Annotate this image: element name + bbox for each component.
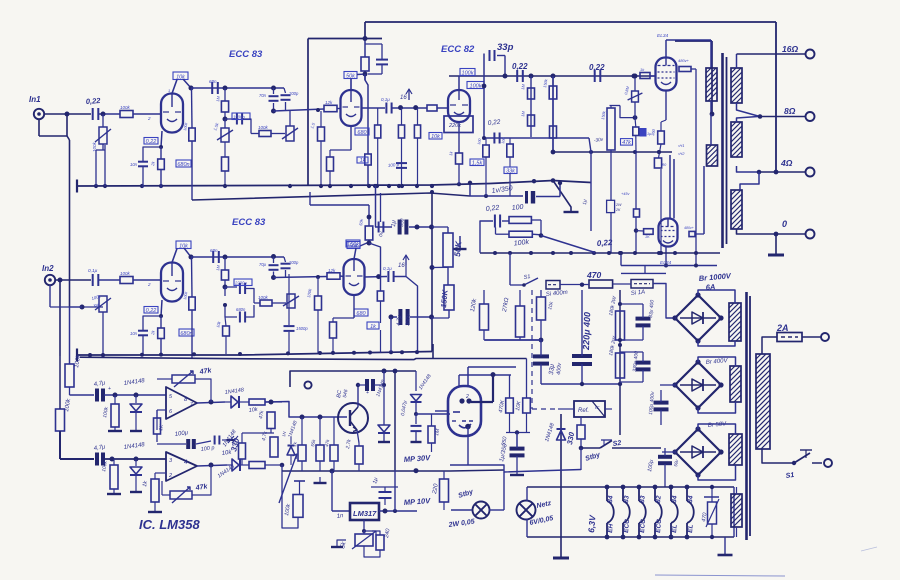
svg-text:2: 2 (168, 473, 172, 479)
svg-text:ECC 83: ECC 83 (232, 217, 266, 228)
svg-text:50k: 50k (346, 73, 355, 79)
svg-text:100k: 100k (462, 70, 474, 76)
svg-text:10n: 10n (130, 331, 138, 336)
svg-text:34: 34 (687, 495, 695, 503)
svg-text:33k: 33k (506, 168, 515, 174)
svg-text:12k: 12k (325, 100, 333, 105)
svg-text:MP 10V: MP 10V (404, 496, 432, 507)
svg-text:16Ω: 16Ω (782, 44, 798, 54)
svg-text:EL34: EL34 (657, 33, 669, 39)
svg-text:In1: In1 (29, 95, 41, 104)
svg-text:MP 30V: MP 30V (404, 453, 432, 464)
svg-text:0,1μ: 0,1μ (88, 268, 98, 274)
svg-text:+45v: +45v (621, 192, 630, 196)
svg-text:83: 83 (639, 495, 647, 503)
svg-text:400v: 400v (556, 362, 563, 376)
svg-text:0,22: 0,22 (597, 238, 614, 248)
svg-text:47k: 47k (622, 140, 631, 146)
svg-text:10n: 10n (130, 162, 138, 167)
svg-text:2: 2 (465, 394, 469, 400)
svg-text:1500p: 1500p (296, 326, 308, 331)
svg-text:›H2: ›H2 (678, 151, 685, 156)
svg-text:S1: S1 (523, 274, 531, 281)
svg-text:4,7μ: 4,7μ (396, 315, 403, 326)
svg-text:680: 680 (356, 311, 366, 317)
svg-text:0,1μ: 0,1μ (383, 266, 392, 271)
svg-text:4Ω: 4Ω (780, 158, 793, 168)
svg-text:Ref.: Ref. (578, 408, 589, 414)
svg-text:680: 680 (357, 130, 367, 136)
svg-text:1μ: 1μ (582, 199, 588, 205)
svg-text:ECC 83: ECC 83 (229, 49, 263, 60)
svg-text:2200p: 2200p (234, 281, 247, 286)
svg-text:0,22: 0,22 (589, 63, 605, 72)
svg-text:200p: 200p (288, 260, 299, 265)
svg-text:1k: 1k (370, 324, 376, 330)
svg-text:100k: 100k (258, 295, 269, 300)
svg-text:+: + (108, 386, 111, 392)
svg-text:33p: 33p (497, 42, 514, 53)
svg-text:350: 350 (399, 218, 406, 227)
svg-text:1,5k: 1,5k (472, 160, 483, 166)
svg-text:+: + (366, 390, 369, 396)
svg-text:10k: 10k (248, 407, 258, 414)
svg-text:350v: 350v (405, 313, 412, 327)
svg-text:1k: 1k (360, 158, 366, 164)
svg-text:ECC 82: ECC 82 (441, 44, 475, 55)
svg-text:10k: 10k (431, 134, 440, 140)
svg-text:82: 82 (655, 495, 663, 503)
svg-text:EL: EL (671, 524, 679, 533)
svg-text:2K: 2K (615, 208, 621, 212)
svg-text:ECC: ECC (623, 519, 631, 534)
svg-text:0,22: 0,22 (146, 308, 157, 314)
svg-text:200p: 200p (288, 91, 299, 96)
svg-text:0: 0 (782, 219, 787, 229)
svg-text:16: 16 (398, 263, 405, 269)
svg-text:70n: 70n (259, 93, 267, 98)
svg-text:100k: 100k (120, 105, 131, 110)
svg-text:1N: 1N (281, 431, 287, 437)
svg-text:0,22: 0,22 (146, 139, 157, 145)
svg-text:150K: 150K (439, 289, 450, 308)
svg-text:100k: 100k (258, 125, 269, 130)
svg-text:2: 2 (147, 116, 151, 121)
svg-text:33μ: 33μ (548, 363, 556, 375)
svg-text:680n: 680n (180, 331, 192, 337)
svg-text:8Ω: 8Ω (784, 106, 796, 116)
svg-text:1: 1 (168, 88, 170, 93)
svg-text:2: 2 (147, 282, 151, 287)
svg-text:S2: S2 (612, 440, 622, 448)
svg-text:0,22: 0,22 (485, 205, 499, 213)
svg-text:2A: 2A (776, 323, 789, 333)
svg-text:470: 470 (586, 270, 601, 280)
svg-text:In2: In2 (42, 264, 54, 273)
svg-text:70μ: 70μ (259, 262, 267, 267)
svg-text:ECC: ECC (639, 519, 647, 534)
svg-text:100: 100 (511, 204, 523, 212)
svg-text:1μ: 1μ (391, 219, 398, 227)
svg-text:83: 83 (623, 495, 631, 503)
svg-text:68n: 68n (210, 248, 218, 253)
svg-text:100k: 100k (470, 83, 482, 89)
svg-text:480v+: 480v+ (684, 226, 694, 230)
svg-text:680n: 680n (177, 162, 189, 168)
svg-text:1K: 1K (645, 235, 650, 239)
svg-text:S1: S1 (785, 472, 795, 480)
svg-text:IC: IC (595, 405, 600, 410)
svg-text:ECC: ECC (655, 519, 663, 534)
svg-text:12k: 12k (328, 268, 336, 273)
svg-text:6,3V: 6,3V (586, 514, 598, 534)
svg-text:84: 84 (607, 495, 615, 503)
svg-text:0,22: 0,22 (512, 62, 528, 71)
svg-text:16: 16 (400, 95, 407, 101)
svg-text:480v+: 480v+ (678, 58, 690, 63)
svg-text:150k: 150k (347, 242, 359, 248)
svg-text:7: 7 (190, 402, 193, 408)
svg-text:IC. LM358: IC. LM358 (139, 517, 200, 532)
svg-text:680n: 680n (236, 307, 246, 312)
svg-text:LM317: LM317 (353, 509, 377, 518)
svg-text:0,1μ: 0,1μ (381, 97, 390, 102)
svg-text:›H1: ›H1 (678, 143, 684, 148)
svg-text:EL: EL (687, 524, 695, 533)
svg-text:2W: 2W (615, 203, 622, 207)
svg-text:0,22: 0,22 (86, 96, 102, 106)
svg-text:68n: 68n (209, 79, 217, 84)
svg-text:34: 34 (671, 495, 679, 503)
svg-text:100k: 100k (120, 271, 131, 276)
svg-text:EH: EH (607, 523, 615, 533)
svg-text:0,22: 0,22 (487, 119, 501, 127)
